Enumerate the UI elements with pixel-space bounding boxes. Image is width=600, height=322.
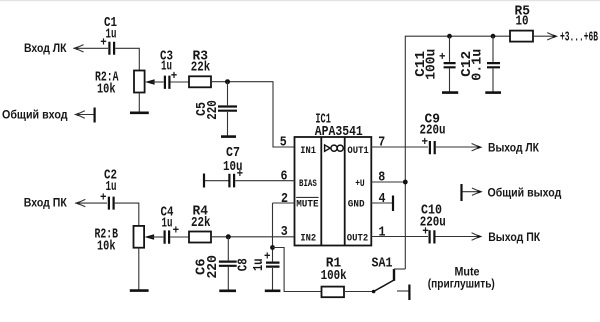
svg-text:Общий выход: Общий выход xyxy=(488,185,562,199)
svg-text:1u: 1u xyxy=(106,28,117,43)
svg-text:220: 220 xyxy=(206,255,221,279)
svg-text:1: 1 xyxy=(379,226,386,241)
svg-text:Вход ПК: Вход ПК xyxy=(24,196,68,210)
svg-text:Вход ЛК: Вход ЛК xyxy=(24,41,67,55)
svg-text:+: + xyxy=(422,135,429,149)
svg-text:IN2: IN2 xyxy=(300,233,316,244)
svg-text:+: + xyxy=(237,167,244,181)
svg-text:1u: 1u xyxy=(162,217,173,232)
svg-text:100u: 100u xyxy=(424,49,439,80)
svg-text:SA1: SA1 xyxy=(372,257,393,272)
svg-text:6: 6 xyxy=(281,169,288,184)
svg-text:22k: 22k xyxy=(191,216,211,231)
svg-text:BIAS: BIAS xyxy=(299,179,317,190)
svg-text:5: 5 xyxy=(280,136,287,151)
svg-text:Выход ПК: Выход ПК xyxy=(488,230,541,244)
svg-text:4: 4 xyxy=(379,192,386,207)
svg-text:+: + xyxy=(100,36,107,50)
svg-text:IN1: IN1 xyxy=(300,146,316,157)
svg-text:+3...+6В: +3...+6В xyxy=(560,31,598,46)
svg-text:C7: C7 xyxy=(226,146,240,161)
svg-text:+: + xyxy=(171,69,178,83)
svg-text:OUT1: OUT1 xyxy=(347,146,368,157)
svg-text:1u: 1u xyxy=(106,180,117,195)
svg-text:+U: +U xyxy=(355,179,365,190)
svg-text:(приглушить): (приглушить) xyxy=(428,277,495,291)
svg-text:C8: C8 xyxy=(237,258,252,271)
svg-text:100k: 100k xyxy=(321,269,347,284)
svg-text:+: + xyxy=(173,224,180,238)
svg-text:Общий вход: Общий вход xyxy=(2,107,68,121)
svg-text:10k: 10k xyxy=(97,240,116,255)
svg-text:GND: GND xyxy=(348,200,365,211)
svg-text:10k: 10k xyxy=(97,83,116,98)
svg-text:+: + xyxy=(422,224,429,238)
svg-text:22k: 22k xyxy=(191,61,211,76)
svg-text:+: + xyxy=(100,191,107,205)
svg-text:3: 3 xyxy=(281,225,288,240)
svg-text:Выход ЛК: Выход ЛК xyxy=(488,141,540,155)
svg-text:MUTE: MUTE xyxy=(296,200,318,211)
svg-text:OUT2: OUT2 xyxy=(347,233,368,244)
svg-text:2: 2 xyxy=(281,192,288,207)
svg-text:7: 7 xyxy=(378,136,385,151)
svg-text:0.1u: 0.1u xyxy=(470,49,485,81)
svg-text:10: 10 xyxy=(516,15,529,30)
svg-text:8: 8 xyxy=(378,171,385,186)
